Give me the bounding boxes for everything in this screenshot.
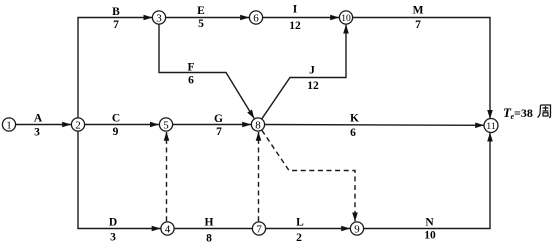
node 8 [251, 118, 264, 131]
svg-text:5: 5 [198, 18, 204, 30]
svg-text:7: 7 [216, 126, 222, 138]
svg-text:L: L [296, 216, 304, 228]
wire G 5-8 [173, 124, 251, 126]
svg-text:=38: =38 [514, 106, 533, 120]
wire K 8-11 [265, 124, 484, 127]
svg-text:7: 7 [415, 19, 421, 31]
svg-text:C: C [112, 112, 120, 124]
node 1 [2, 118, 15, 131]
dashed wire 7-8 [258, 132, 260, 221]
svg-text:J: J [309, 64, 315, 76]
svg-text:3: 3 [110, 232, 116, 244]
svg-text:7: 7 [113, 19, 119, 31]
node 10 [339, 11, 352, 24]
svg-text:F: F [187, 62, 194, 74]
svg-text:12: 12 [289, 20, 301, 32]
svg-text:9: 9 [113, 126, 119, 138]
dashed wire 8-9 [262, 130, 355, 221]
svg-text:1: 1 [6, 119, 12, 131]
svg-text:2: 2 [296, 232, 302, 244]
wire I 6-10 [263, 17, 339, 19]
svg-text:I: I [293, 4, 298, 16]
wire L 7-9 [266, 228, 350, 230]
svg-text:9: 9 [354, 223, 360, 235]
svg-text:E: E [197, 5, 205, 17]
svg-text:M: M [413, 5, 424, 17]
node 11 [484, 119, 498, 133]
svg-text:7: 7 [256, 223, 262, 235]
node 5 [159, 118, 172, 131]
node 7 [252, 222, 265, 235]
node 9 [350, 222, 363, 235]
svg-text:10: 10 [341, 14, 351, 24]
node 2 [71, 118, 84, 131]
svg-text:N: N [425, 217, 434, 229]
svg-text:6: 6 [350, 127, 356, 139]
label Te=38 zhou [503, 105, 551, 121]
node 6 [249, 11, 262, 24]
svg-text:2: 2 [75, 119, 81, 131]
wire C 2-5 [85, 124, 159, 126]
svg-text:A: A [34, 113, 43, 125]
svg-text:K: K [350, 113, 359, 125]
svg-text:10: 10 [424, 230, 436, 242]
svg-text:B: B [112, 6, 120, 18]
svg-text:D: D [109, 216, 117, 228]
wire J 8-10 [262, 25, 346, 119]
wire M 10-11 [353, 18, 490, 119]
wire F 3-8 [159, 24, 254, 118]
wire D 2-4 [78, 131, 161, 228]
svg-text:8: 8 [255, 119, 261, 131]
svg-text:6: 6 [253, 12, 259, 24]
wire H 4-7 [174, 228, 252, 230]
node 4 [161, 222, 174, 235]
svg-text:12: 12 [307, 80, 319, 92]
wire N 9-11 [364, 133, 490, 229]
wire A 1-2 [16, 124, 71, 126]
svg-text:11: 11 [486, 122, 495, 132]
dashed wire 4-5 [166, 132, 168, 221]
svg-text:8: 8 [206, 232, 212, 244]
svg-text:6: 6 [188, 74, 194, 86]
hand-drawn CJK zhou glyph [538, 105, 551, 118]
svg-text:H: H [205, 216, 214, 228]
svg-text:3: 3 [156, 12, 162, 24]
svg-text:4: 4 [165, 223, 171, 235]
wire B 2-3 [78, 18, 152, 118]
wire E 3-6 [166, 17, 249, 19]
svg-text:5: 5 [163, 119, 169, 131]
svg-text:G: G [214, 113, 223, 125]
svg-text:3: 3 [34, 126, 40, 138]
node 3 [152, 11, 165, 24]
